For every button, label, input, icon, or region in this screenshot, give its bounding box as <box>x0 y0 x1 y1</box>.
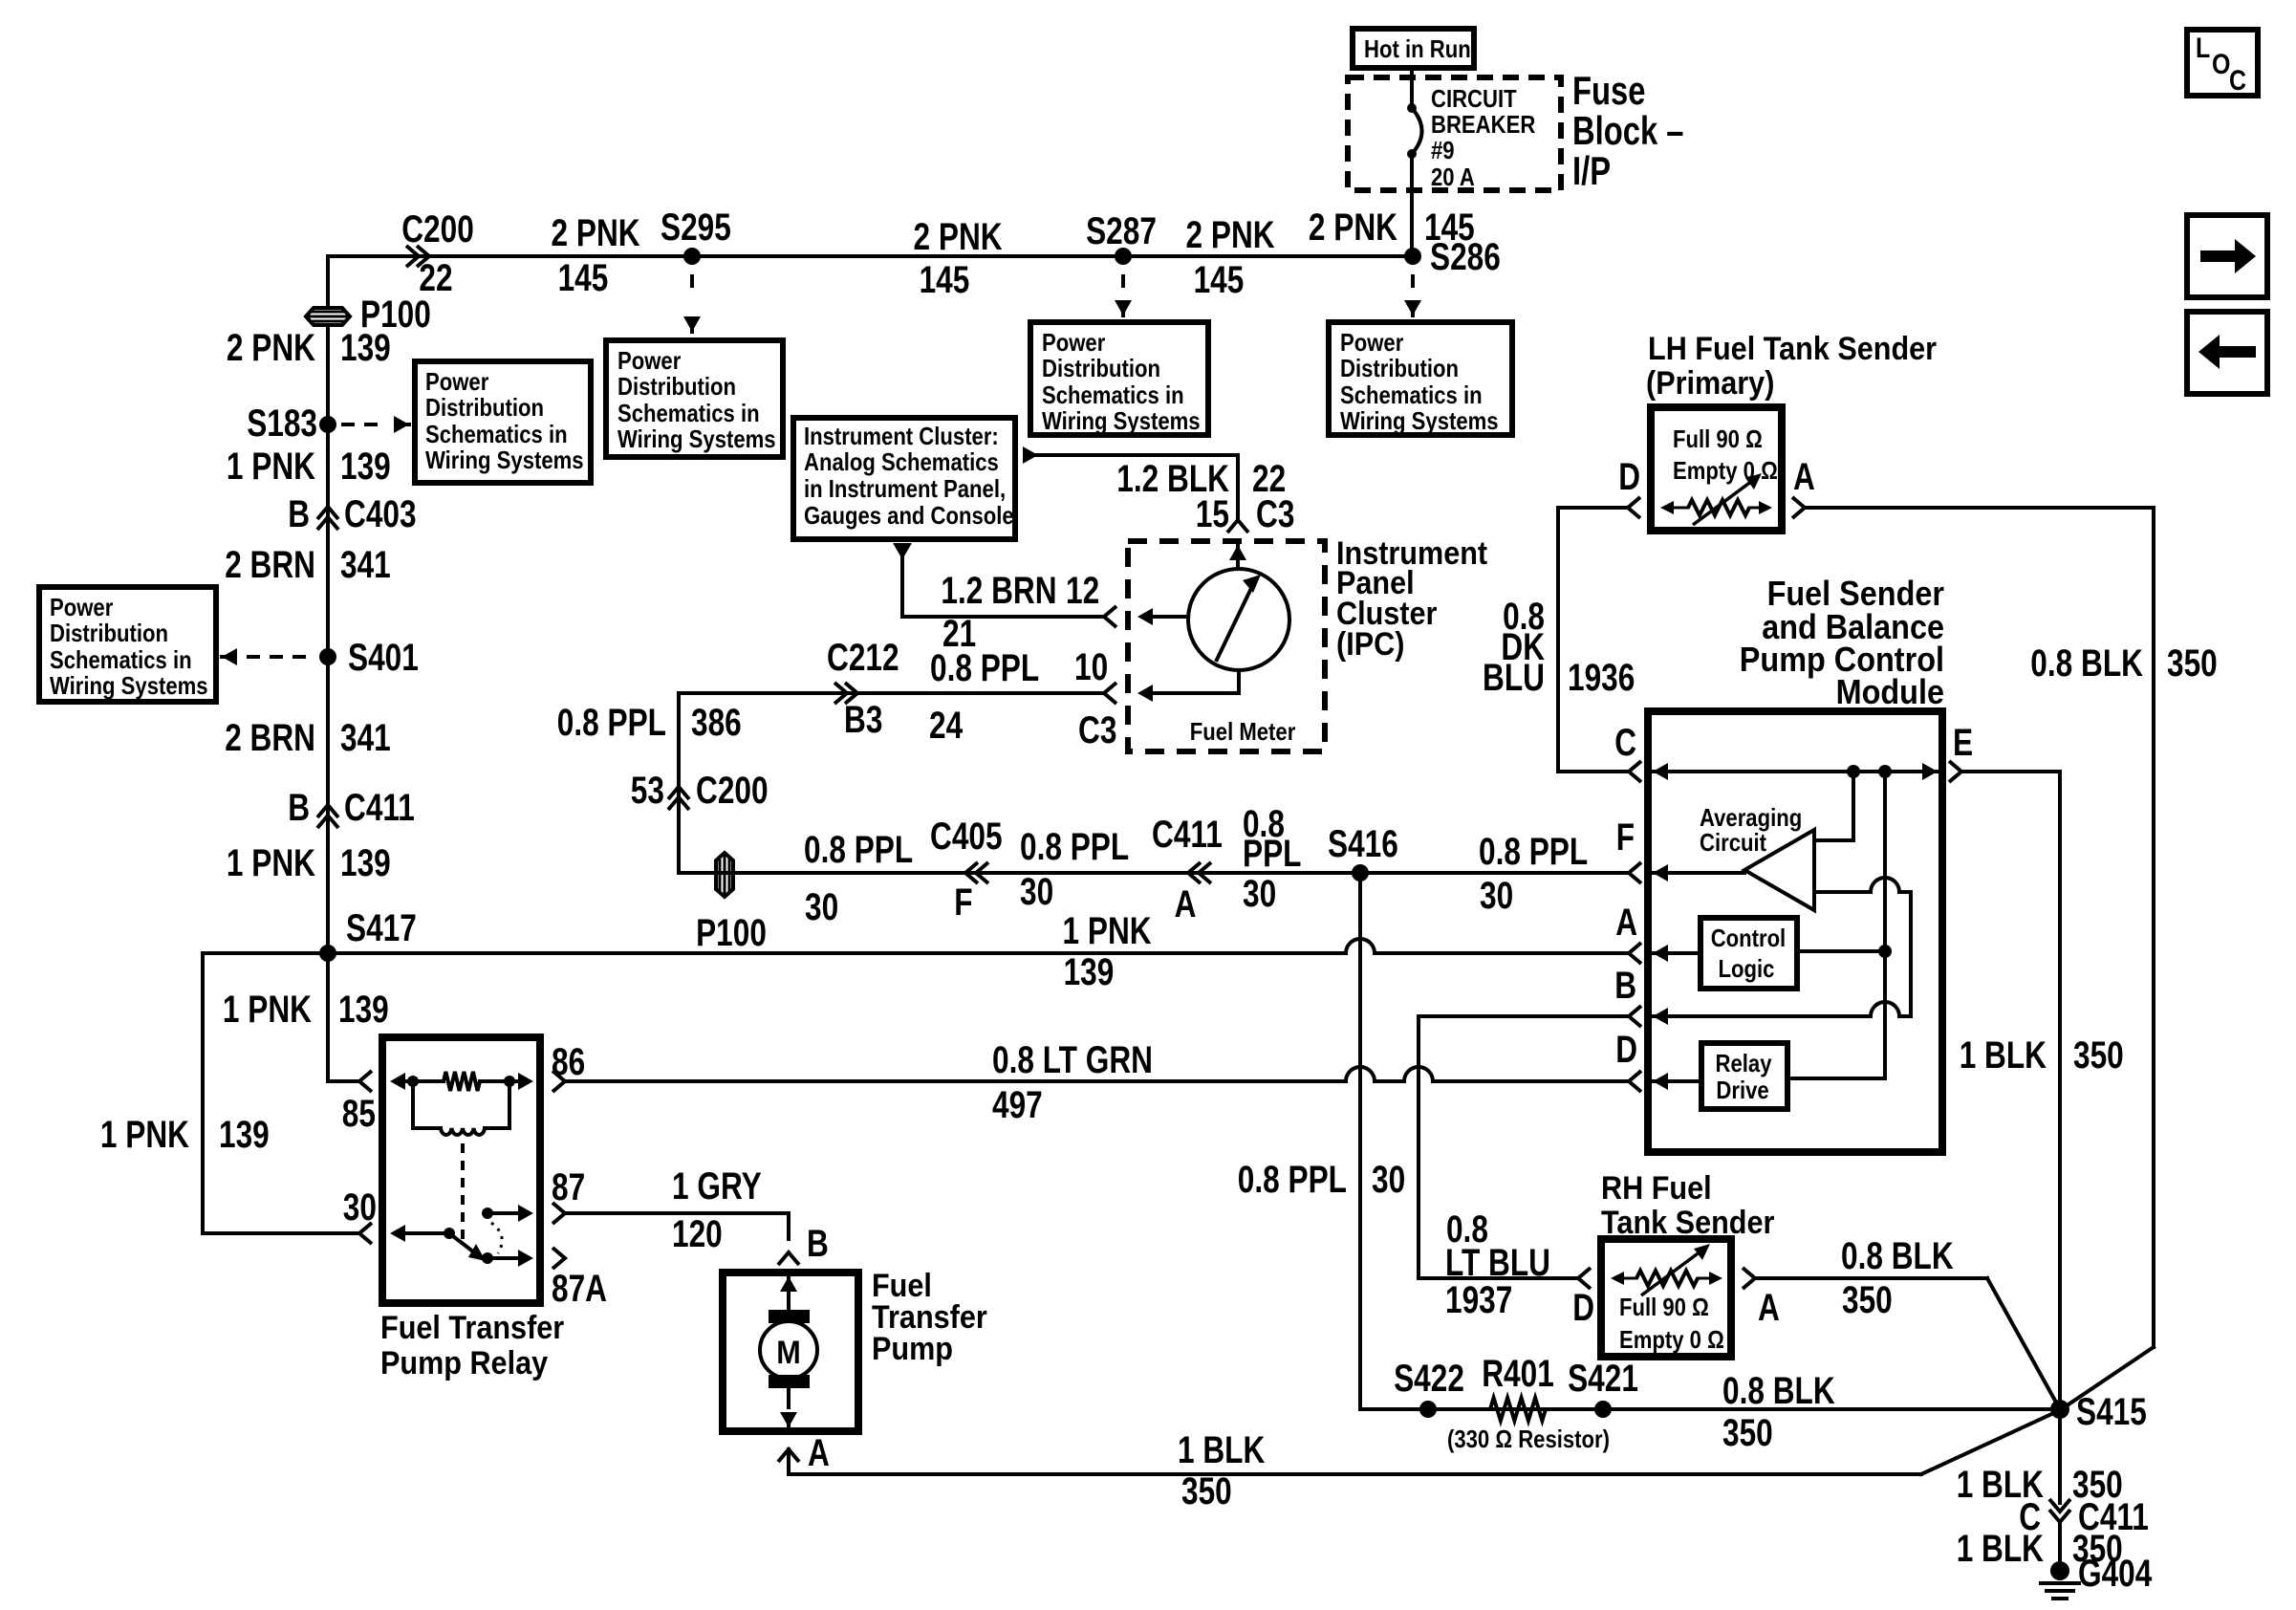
module pin F chevron <box>1616 816 1641 883</box>
Hot in Run box <box>1353 29 1474 68</box>
svg-text:L: L <box>2196 33 2210 64</box>
pump motor brush bottom <box>769 1375 810 1388</box>
wire 1 PNK 139 S183 to C403 <box>326 424 330 516</box>
relay coil branch <box>413 1081 509 1135</box>
svg-text:0.8 PPL: 0.8 PPL <box>1238 1159 1347 1201</box>
RH sender pin A chevron <box>1743 1268 1780 1329</box>
svg-text:350: 350 <box>1842 1279 1893 1321</box>
label 350 RH <box>1842 1279 1893 1321</box>
svg-text:B3: B3 <box>844 699 882 741</box>
svg-text:1 BLK: 1 BLK <box>1178 1429 1265 1471</box>
fuel meter gauge circle <box>1188 569 1289 670</box>
svg-text:O: O <box>2212 49 2230 80</box>
label 22 at C3 <box>1252 458 1286 500</box>
svg-text:Schematics in: Schematics in <box>425 420 568 448</box>
IPC pin 12 chevron <box>1104 606 1116 627</box>
label C200 <box>401 208 474 250</box>
label circuit 22 <box>419 257 452 299</box>
svg-text:M: M <box>776 1335 801 1371</box>
relay pin 30 chevron <box>359 1223 372 1244</box>
svg-text:E: E <box>1953 722 1973 764</box>
svg-text:F: F <box>954 881 972 924</box>
label 87A <box>552 1268 607 1310</box>
svg-text:R401: R401 <box>1482 1353 1554 1395</box>
splice S286 <box>1404 236 1501 278</box>
svg-text:341: 341 <box>340 544 391 586</box>
svg-text:0.8 BLK: 0.8 BLK <box>1722 1370 1835 1412</box>
svg-text:BLU: BLU <box>1483 657 1545 699</box>
module pin B chevron <box>1614 965 1641 1027</box>
label 0.8 PPL at C212 <box>930 647 1039 689</box>
label 2 PNK left <box>552 212 640 254</box>
svg-text:Power: Power <box>425 367 488 396</box>
relay drive box <box>1701 1043 1787 1109</box>
module relay drive output <box>1787 1077 1885 1080</box>
svg-text:B: B <box>288 787 310 829</box>
module C-E internal wire <box>1653 763 1938 780</box>
pump pin A connector <box>778 1432 830 1474</box>
label 139 on A wire <box>1064 951 1115 993</box>
svg-text:139: 139 <box>219 1114 270 1156</box>
svg-text:12: 12 <box>1066 570 1099 612</box>
label B3 <box>844 699 882 741</box>
svg-text:Wiring Systems: Wiring Systems <box>1042 406 1201 435</box>
relay pin 87 chevron <box>552 1203 565 1224</box>
label 2 PNK / 139 pair1 <box>227 327 391 369</box>
svg-text:RH Fuel: RH Fuel <box>1601 1170 1712 1207</box>
dashed arrow from S286 to power distribution note <box>1404 274 1421 315</box>
svg-text:30: 30 <box>1372 1159 1405 1201</box>
label Relay Drive <box>1716 1049 1772 1104</box>
label 1 BLK above C411 <box>1957 1464 2044 1506</box>
svg-text:1.2 BRN: 1.2 BRN <box>941 570 1056 612</box>
svg-text:1 PNK: 1 PNK <box>223 989 312 1031</box>
svg-text:30: 30 <box>1480 875 1513 917</box>
label 1 PNK / 139 pair5 <box>100 1114 270 1156</box>
wire 0.8 BLK 350 RH sender A to S415 <box>1755 1278 2060 1409</box>
label 86 <box>552 1041 585 1083</box>
RH sender box <box>1601 1239 1731 1357</box>
svg-text:350: 350 <box>1722 1412 1773 1454</box>
svg-text:Wiring Systems: Wiring Systems <box>50 671 208 700</box>
dashed arrow from S287 to power distribution note <box>1115 274 1132 315</box>
svg-text:Pump: Pump <box>872 1331 953 1367</box>
module control logic output <box>1797 949 1885 953</box>
svg-text:C405: C405 <box>930 816 1003 858</box>
IPC pin 12 internal arrow <box>1137 608 1188 625</box>
svg-text:1 PNK: 1 PNK <box>100 1114 189 1156</box>
svg-text:139: 139 <box>338 989 389 1031</box>
note box power distribution (S287) <box>1030 322 1208 435</box>
wire 0.8 DK BLU 1936 LH sender D to module C <box>1558 508 1628 772</box>
fuse block dashed outline <box>1348 77 1561 190</box>
svg-text:53: 53 <box>631 770 664 812</box>
wire 2 PNK 145 main horizontal feed <box>328 254 1413 258</box>
label 1 BLK pump wire <box>1178 1429 1265 1471</box>
svg-text:C200: C200 <box>401 208 474 250</box>
dashed arrow S183 to note <box>341 416 409 433</box>
svg-text:A: A <box>1175 883 1197 925</box>
svg-text:30: 30 <box>1020 871 1053 913</box>
label 0.8 PPL seg4 <box>1479 831 1588 873</box>
svg-text:1 PNK: 1 PNK <box>1063 910 1152 952</box>
LOC legend box <box>2187 30 2258 97</box>
label 1 PNK / 139 pair2 <box>227 446 391 488</box>
RH sender potentiometer <box>1611 1244 1722 1295</box>
IPC pin 10 internal arrow <box>1137 685 1239 702</box>
label Control Logic <box>1711 924 1787 983</box>
label 24 <box>929 705 964 747</box>
module box <box>1648 711 1942 1152</box>
svg-text:Power: Power <box>1042 328 1105 357</box>
svg-text:145: 145 <box>920 259 970 301</box>
svg-text:0.8 PPL: 0.8 PPL <box>1479 831 1588 873</box>
svg-text:87: 87 <box>552 1166 585 1208</box>
svg-text:24: 24 <box>929 705 964 747</box>
label 87 <box>552 1166 585 1208</box>
label 1 BLK below C411 <box>1957 1528 2044 1570</box>
svg-text:S295: S295 <box>661 207 731 249</box>
fuel transfer pump box <box>723 1273 858 1431</box>
svg-text:341: 341 <box>340 717 391 759</box>
svg-text:(Primary): (Primary) <box>1646 365 1774 402</box>
svg-text:C411: C411 <box>344 787 415 829</box>
wire 1 BLK 350 S415 to C411 <box>2058 1409 2062 1503</box>
svg-text:0.8 PPL: 0.8 PPL <box>557 702 666 744</box>
svg-text:350: 350 <box>2073 1034 2124 1077</box>
ground G404 <box>2041 1553 2153 1599</box>
svg-text:2 PNK: 2 PNK <box>1186 214 1275 256</box>
label 145 mid <box>920 259 970 301</box>
svg-text:Distribution: Distribution <box>50 619 168 647</box>
splice S416 <box>1328 823 1398 881</box>
svg-text:Fuel Transfer: Fuel Transfer <box>380 1310 564 1346</box>
svg-text:139: 139 <box>340 327 391 369</box>
label 350 right <box>2167 642 2218 685</box>
svg-text:S287: S287 <box>1086 210 1157 252</box>
svg-text:B: B <box>1614 965 1636 1007</box>
svg-text:A: A <box>1615 902 1637 944</box>
svg-text:S417: S417 <box>346 907 417 949</box>
relay actuator dashed link <box>461 1143 465 1241</box>
svg-text:P100: P100 <box>696 912 767 954</box>
svg-text:(330 Ω Resistor): (330 Ω Resistor) <box>1447 1425 1610 1453</box>
svg-text:Full 90 Ω: Full 90 Ω <box>1619 1293 1709 1321</box>
wire 0.8 BLK 350 bottom run <box>1360 1407 2060 1411</box>
svg-text:Power: Power <box>1340 328 1403 357</box>
relay dotted throw arc <box>491 1223 502 1253</box>
label 0.8 PPL seg1 <box>804 829 913 871</box>
svg-text:in Instrument Panel,: in Instrument Panel, <box>804 474 1006 503</box>
label 1.2 BLK <box>1116 458 1229 500</box>
note box power distribution (S295) <box>606 340 783 457</box>
connector P100 grommet upper <box>306 308 350 325</box>
label 1 PNK on A wire <box>1063 910 1152 952</box>
connector P100 grommet lower <box>716 853 733 897</box>
module pin A internal arrow <box>1653 945 1700 962</box>
connector C3 pin 15 <box>1196 493 1295 535</box>
connector C405 pin F <box>930 816 1003 924</box>
svg-text:Fuel Meter: Fuel Meter <box>1190 717 1296 746</box>
pump pin B connector <box>778 1223 829 1265</box>
svg-text:86: 86 <box>552 1041 585 1083</box>
label 30 seg3 <box>1243 873 1276 915</box>
svg-text:15: 15 <box>1196 493 1229 535</box>
svg-text:D: D <box>1572 1287 1594 1329</box>
label 1 BLK module wire <box>1960 1034 2047 1077</box>
svg-text:C212: C212 <box>827 637 899 679</box>
wire 1 PNK 139 S417 to module pin A <box>328 939 1627 953</box>
connector C411 pin B <box>288 787 415 829</box>
splice S401 <box>319 637 419 679</box>
svg-text:30: 30 <box>1243 873 1276 915</box>
svg-text:C3: C3 <box>1256 493 1294 535</box>
wire breaker to S286 <box>1410 154 1414 256</box>
pump internal feed arrow <box>780 1276 797 1312</box>
relay switch arm <box>449 1233 486 1261</box>
label C3 lower <box>1078 709 1116 751</box>
wire 0.8 PPL 386 vertical <box>677 693 681 873</box>
svg-text:Instrument Cluster:: Instrument Cluster: <box>804 422 999 450</box>
svg-text:1 PNK: 1 PNK <box>227 446 315 488</box>
svg-text:Analog Schematics: Analog Schematics <box>804 447 999 476</box>
svg-text:PPL: PPL <box>1243 833 1302 875</box>
arrow from cluster note bottom <box>893 543 912 559</box>
module control node dot <box>1878 945 1892 958</box>
svg-text:386: 386 <box>691 702 742 744</box>
svg-text:S416: S416 <box>1328 823 1398 865</box>
svg-text:139: 139 <box>340 842 391 884</box>
relay contact 87A dot <box>482 1250 533 1267</box>
label 1 GRY <box>672 1165 762 1207</box>
note box power distribution (S286) <box>1329 322 1512 435</box>
label 85 <box>342 1093 376 1135</box>
LH sender pin D chevron <box>1618 456 1640 518</box>
connector C403 pin B <box>288 493 416 535</box>
svg-text:1936: 1936 <box>1568 657 1635 699</box>
module pin D chevron <box>1615 1029 1641 1092</box>
svg-text:497: 497 <box>992 1084 1043 1126</box>
resistor R401 330 ohm <box>1482 1353 1554 1421</box>
splice S295 <box>661 207 731 265</box>
svg-text:1 BLK: 1 BLK <box>1957 1528 2044 1570</box>
label 120 <box>672 1213 723 1255</box>
wire 1.2 BRN 21 to IPC pin 12 <box>902 557 1104 617</box>
relay contact 87 dot <box>482 1205 533 1222</box>
wire 2 PNK 139 left vertical drop <box>326 256 330 308</box>
label (330 Ohm Resistor) <box>1447 1425 1610 1453</box>
note box instrument cluster schematics <box>793 418 1015 539</box>
pump motor M letter <box>776 1335 801 1371</box>
svg-text:Empty 0 Ω: Empty 0 Ω <box>1673 456 1778 485</box>
wire 1 BLK 350 pump A to S415 <box>789 1410 2060 1474</box>
label 1.2 BRN <box>941 570 1056 612</box>
LH sender label Full/Empty <box>1673 424 1778 485</box>
LH sender box <box>1651 407 1782 531</box>
svg-text:0.8 BLK: 0.8 BLK <box>2030 642 2143 685</box>
svg-text:0.8 BLK: 0.8 BLK <box>1841 1235 1954 1277</box>
svg-text:I/P: I/P <box>1572 148 1611 193</box>
svg-text:Schematics in: Schematics in <box>50 645 192 674</box>
svg-text:F: F <box>1616 816 1635 859</box>
label 12 <box>1066 570 1099 612</box>
label 2 BRN / 341 pair2 <box>225 717 391 759</box>
wire 1 BLK 350 module E to S415 <box>1961 772 2060 1409</box>
relay switch pivot dot <box>444 1228 455 1239</box>
label Fuel Meter <box>1190 717 1296 746</box>
relay resistor element <box>413 1072 509 1091</box>
splice S183 <box>247 402 336 445</box>
svg-text:20 A: 20 A <box>1431 163 1475 191</box>
right-arrow legend box <box>2187 215 2267 297</box>
label RH Fuel Tank Sender <box>1601 1170 1774 1241</box>
relay pin 85 chevron <box>359 1071 372 1092</box>
label 30 seg4 <box>1480 875 1513 917</box>
relay box fuel transfer pump relay <box>382 1037 540 1303</box>
LH sender pin A chevron <box>1792 456 1815 518</box>
module pin D internal arrow <box>1653 1073 1701 1090</box>
arrow from cluster note to IPC feed wire <box>1023 446 1038 464</box>
svg-text:CIRCUIT: CIRCUIT <box>1431 84 1517 113</box>
label 0.8 PPL seg2 <box>1020 826 1129 868</box>
svg-text:139: 139 <box>340 446 391 488</box>
relay pin 30 internal arrow <box>390 1225 449 1242</box>
label 145 left <box>558 257 609 299</box>
label 350 pump wire <box>1181 1470 1232 1512</box>
svg-text:S415: S415 <box>2076 1391 2147 1433</box>
svg-text:Full 90 Ω: Full 90 Ω <box>1673 424 1763 453</box>
label P100 upper <box>360 294 431 336</box>
svg-text:0.8 LT GRN: 0.8 LT GRN <box>992 1039 1153 1081</box>
svg-text:(IPC): (IPC) <box>1336 626 1404 663</box>
wire 1.2 BLK 22 into IPC <box>1034 455 1238 517</box>
splice S422 <box>1394 1358 1464 1418</box>
wire 0.8 PPL main bus to module F <box>679 871 1627 875</box>
control logic box <box>1700 918 1797 989</box>
svg-text:Power: Power <box>50 593 113 621</box>
svg-text:145: 145 <box>1194 259 1245 301</box>
note box power distribution (S183) <box>415 361 591 483</box>
wire 1 GRY 120 relay 87 to pump B <box>565 1213 789 1239</box>
label 0.8 PPL / 30 pair vertical <box>1238 1159 1405 1201</box>
label 1936 <box>1568 657 1635 699</box>
svg-text:1 BLK: 1 BLK <box>1960 1034 2047 1077</box>
RH sender pin D chevron <box>1572 1268 1594 1329</box>
svg-text:Wiring Systems: Wiring Systems <box>425 446 584 474</box>
relay coil feed internal arrow <box>390 1073 415 1090</box>
module ground bus vertical <box>1883 772 1887 1078</box>
splice S415 <box>2050 1391 2147 1433</box>
label 30 <box>343 1186 377 1229</box>
svg-text:C: C <box>2229 65 2246 97</box>
svg-text:A: A <box>1793 456 1815 498</box>
label 0.8 BLK bottom <box>1722 1370 1835 1412</box>
svg-text:Logic: Logic <box>1719 954 1775 983</box>
module pin B internal wire <box>1653 1002 1911 1025</box>
wire 1 PNK 139 C411 to S417 <box>326 808 330 953</box>
svg-text:Fuse: Fuse <box>1572 68 1646 113</box>
svg-text:30: 30 <box>343 1186 377 1229</box>
svg-text:S421: S421 <box>1568 1358 1638 1400</box>
svg-text:145: 145 <box>1424 207 1475 249</box>
svg-text:120: 120 <box>672 1213 723 1255</box>
svg-text:1 PNK: 1 PNK <box>227 842 315 884</box>
svg-text:B: B <box>288 493 310 535</box>
svg-text:C200: C200 <box>696 770 769 812</box>
label Fuse Block - I/P <box>1572 68 1684 193</box>
label 0.8 PPL 386 pair <box>557 702 742 744</box>
svg-text:G404: G404 <box>2078 1553 2153 1595</box>
label 350 module wire <box>2073 1034 2124 1077</box>
svg-text:0.8 PPL: 0.8 PPL <box>1020 826 1129 868</box>
note box power distribution (S401) <box>39 587 216 702</box>
svg-text:Block –: Block – <box>1572 108 1684 153</box>
label Fuel Transfer Pump <box>872 1268 987 1367</box>
label Averaging Circuit <box>1700 803 1802 857</box>
splice S417 <box>319 907 417 962</box>
svg-text:Distribution: Distribution <box>617 372 736 401</box>
svg-text:Gauges and Console: Gauges and Console <box>804 501 1014 530</box>
label 0.8 BLK right <box>2030 642 2143 685</box>
dashed arrow S401 to note <box>222 648 315 665</box>
svg-text:BREAKER: BREAKER <box>1431 110 1535 139</box>
module averaging output wire <box>1814 878 1911 1016</box>
svg-text:10: 10 <box>1074 646 1108 688</box>
wire 0.8 BLK 350 LH sender A to S415 <box>1805 508 2154 1410</box>
label 10 <box>1074 646 1108 688</box>
svg-text:Wiring Systems: Wiring Systems <box>1340 406 1499 435</box>
svg-text:Distribution: Distribution <box>1340 354 1459 382</box>
wire 0.8 PPL 24 C212 to IPC pin 10 <box>679 691 1104 695</box>
label 0.8 DK BLU stacked <box>1483 596 1545 699</box>
connector C411 pin C bottom <box>2019 1496 2149 1538</box>
connector C200 pin 53 <box>631 770 769 812</box>
svg-text:Distribution: Distribution <box>425 393 544 422</box>
svg-text:#9: #9 <box>1431 136 1455 164</box>
label 145 right <box>1194 259 1245 301</box>
svg-text:S422: S422 <box>1394 1358 1464 1400</box>
relay internal node dot left <box>407 1076 419 1087</box>
svg-text:Wiring Systems: Wiring Systems <box>617 424 776 453</box>
svg-text:87A: 87A <box>552 1268 607 1310</box>
svg-text:Module: Module <box>1836 672 1944 711</box>
svg-text:Power: Power <box>617 346 681 375</box>
connector C200 >> on feed wire <box>406 246 429 267</box>
label C212 <box>827 637 899 679</box>
svg-text:D: D <box>1618 456 1640 498</box>
label 350 bottom <box>1722 1412 1773 1454</box>
fuel meter needle <box>1216 575 1261 662</box>
svg-text:0.8 PPL: 0.8 PPL <box>930 647 1039 689</box>
svg-text:2 PNK: 2 PNK <box>914 216 1003 258</box>
label 1 PNK / 139 pair4 <box>223 989 389 1031</box>
svg-text:1 GRY: 1 GRY <box>672 1165 762 1207</box>
module internal node dot 1 <box>1847 765 1860 778</box>
label Fuel Transfer Pump Relay <box>380 1310 564 1382</box>
svg-text:Distribution: Distribution <box>1042 354 1160 382</box>
svg-text:C403: C403 <box>344 493 417 535</box>
RH sender label Full/Empty <box>1619 1293 1724 1354</box>
svg-text:LH Fuel Tank Sender: LH Fuel Tank Sender <box>1648 331 1937 367</box>
module wire dot1 to averaging input <box>1814 772 1853 840</box>
module pin C chevron <box>1614 722 1641 782</box>
wire 1 PNK left branch down <box>203 953 357 1233</box>
label 350 above C411 <box>2072 1464 2123 1506</box>
averaging circuit triangle <box>1744 830 1814 910</box>
label LH Fuel Tank Sender <box>1646 331 1937 402</box>
wire 1 PNK S417 down to relay 85 <box>328 953 357 1081</box>
fuel meter bottom lead <box>1237 670 1241 693</box>
